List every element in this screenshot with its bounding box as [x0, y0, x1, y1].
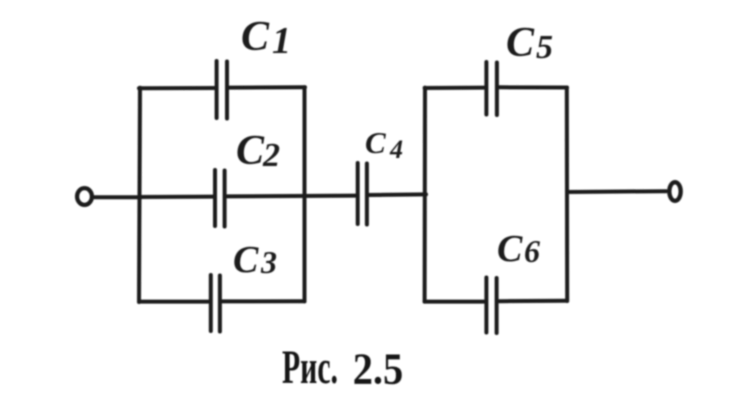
svg-text:2: 2 [262, 137, 280, 174]
svg-text:4: 4 [389, 135, 403, 164]
svg-text:1: 1 [272, 20, 291, 62]
wire right lead [567, 189, 666, 194]
left terminal [77, 188, 92, 205]
label C2 [236, 128, 280, 174]
svg-text:2.5: 2.5 [353, 345, 404, 394]
capacitor C2 [215, 170, 225, 227]
svg-text:C: C [506, 20, 535, 66]
wire middle left segment [140, 195, 213, 199]
label C6 [497, 228, 540, 270]
label C3 [233, 239, 277, 281]
wire right block bottom edge left segment [425, 300, 485, 304]
svg-text:C: C [241, 14, 270, 60]
label C5 [506, 20, 553, 66]
capacitor C4 [358, 163, 367, 225]
wire right block left edge [423, 88, 427, 302]
capacitor C6 [486, 278, 496, 334]
wire middle segment C4 to right block [369, 192, 426, 197]
capacitor C5 [486, 62, 497, 115]
right terminal [669, 182, 680, 201]
svg-text:Рис.: Рис. [282, 340, 338, 394]
wire right block bottom edge right segment [499, 299, 567, 303]
wire middle segment C2 to C4 [227, 194, 356, 199]
svg-text:3: 3 [260, 244, 277, 280]
svg-text:C: C [497, 228, 523, 270]
wire left block right edge [303, 87, 307, 301]
wire left lead [94, 195, 141, 199]
capacitor C3 [211, 275, 220, 332]
wire left block top edge right segment [229, 85, 305, 89]
svg-text:5: 5 [536, 29, 553, 66]
label C4 [365, 125, 403, 164]
capacitor C1 [217, 61, 227, 119]
svg-text:6: 6 [524, 233, 540, 269]
wire left block left edge [139, 88, 140, 302]
caption Рис. 2.5 [282, 340, 403, 394]
label C1 [241, 14, 291, 62]
svg-text:C: C [236, 128, 265, 174]
svg-text:C: C [233, 239, 259, 281]
wire right block top edge right segment [499, 85, 567, 89]
svg-text:C: C [365, 125, 386, 160]
wire left block bottom edge left segment [139, 300, 209, 304]
wire right block right edge [565, 88, 569, 302]
wire right block top edge left segment [425, 86, 485, 90]
wire left block top edge left segment [139, 86, 215, 90]
wire left block bottom edge right segment [222, 299, 305, 303]
